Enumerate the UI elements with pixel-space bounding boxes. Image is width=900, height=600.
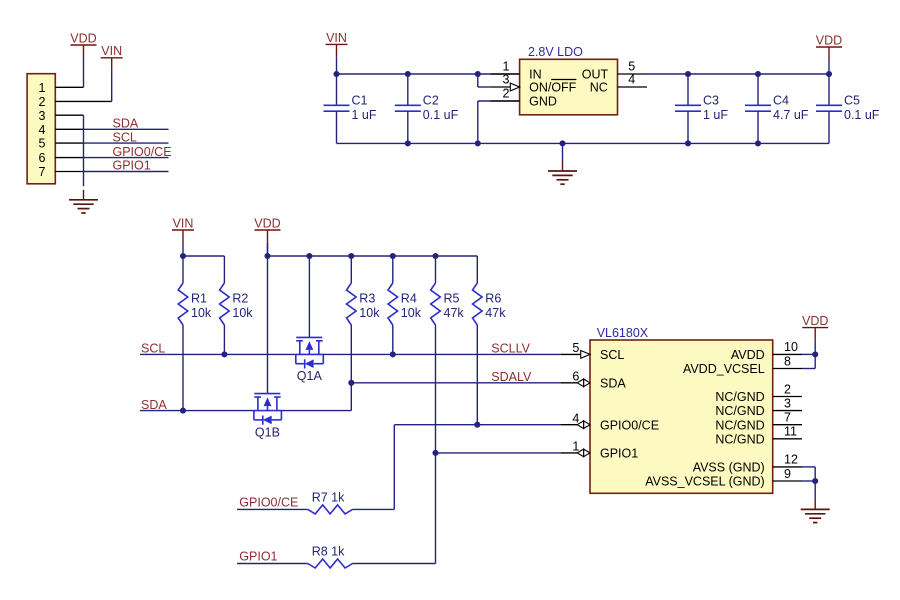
svg-text:AVSS_VCSEL (GND): AVSS_VCSEL (GND)	[645, 475, 764, 489]
wire AVSS to ground	[802, 467, 815, 481]
svg-text:C3: C3	[703, 93, 719, 107]
pin 1 stub	[491, 73, 520, 75]
node R3/SDALV	[348, 380, 354, 386]
capacitor C3	[675, 74, 728, 143]
wire GPIO1 to R8	[237, 563, 308, 565]
svg-text:2: 2	[784, 382, 791, 396]
pin 12 stub	[773, 466, 802, 468]
svg-text:GPIO1: GPIO1	[239, 550, 277, 564]
node C4 bottom	[755, 140, 761, 146]
svg-text:R1: R1	[191, 292, 207, 306]
svg-text:IN: IN	[529, 68, 542, 82]
svg-text:2: 2	[503, 86, 510, 100]
power VDD (regulator output)	[816, 33, 842, 74]
svg-text:GND: GND	[529, 95, 557, 109]
resistor R8	[308, 545, 353, 568]
svg-text:R2: R2	[232, 292, 248, 306]
wire AVDD to VDD	[802, 354, 815, 368]
svg-text:R4: R4	[401, 292, 417, 306]
power VIN (regulator input)	[326, 31, 348, 74]
svg-text:1: 1	[503, 59, 510, 73]
node R6/GPIO0-CE	[474, 422, 480, 428]
svg-text:C4: C4	[773, 93, 789, 107]
svg-text:NC: NC	[590, 81, 608, 95]
resistor R7	[308, 491, 353, 514]
power VIN (connector pin 2)	[101, 44, 123, 101]
svg-text:1 uF: 1 uF	[703, 108, 728, 122]
svg-text:GPIO0/CE: GPIO0/CE	[600, 418, 659, 432]
svg-text:SCLLV: SCLLV	[491, 342, 530, 356]
pin 5	[39, 137, 46, 151]
capacitor C5	[816, 74, 880, 143]
svg-text:VDD: VDD	[816, 33, 842, 47]
svg-text:47k: 47k	[485, 306, 506, 320]
node AVSS junction	[812, 478, 818, 484]
node VIN/R1	[180, 253, 186, 259]
svg-text:6: 6	[572, 370, 579, 384]
node C3 bottom	[685, 140, 691, 146]
svg-text:2: 2	[39, 95, 46, 109]
svg-text:5: 5	[572, 341, 579, 355]
node Q1A gate	[306, 253, 312, 259]
svg-text:AVSS (GND): AVSS (GND)	[693, 461, 765, 475]
pin 2 stub	[55, 100, 111, 102]
wire R6 top lead	[476, 256, 478, 283]
pin 2 stub	[491, 100, 520, 102]
wire R1 top lead	[182, 256, 184, 283]
ground (regulator)	[548, 143, 577, 184]
power VDD (connector pin 1)	[70, 31, 96, 87]
svg-text:GPIO0/CE: GPIO0/CE	[113, 145, 172, 159]
svg-text:4.7 uF: 4.7 uF	[773, 108, 809, 122]
wire GPIO0/CE to R7	[237, 508, 308, 510]
svg-text:Q1B: Q1B	[255, 425, 280, 439]
wire R6 bottom lead to GPIO0/CE	[476, 325, 478, 425]
svg-text:NC/GND: NC/GND	[715, 390, 764, 404]
wire R3 bottom lead to SDALV	[350, 325, 352, 383]
regulator U2 2.8V LDO	[520, 45, 618, 115]
svg-text:10k: 10k	[191, 306, 212, 320]
svg-text:GPIO1: GPIO1	[113, 159, 151, 173]
svg-text:7: 7	[39, 165, 46, 179]
pin 5 stub	[618, 73, 647, 75]
svg-text:VL6180X: VL6180X	[597, 326, 649, 340]
svg-text:ON/OFF: ON/OFF	[529, 81, 577, 95]
pin 8 stub	[773, 368, 802, 370]
capacitor C2	[395, 74, 459, 143]
wire R5 top lead	[435, 256, 437, 283]
pin 3 stub	[773, 410, 802, 412]
svg-text:NC/GND: NC/GND	[715, 432, 764, 446]
node VDD/Q1B gate	[264, 253, 270, 259]
power VDD (IC)	[802, 314, 828, 354]
wire LDO OUT rail	[647, 73, 830, 75]
svg-text:R3: R3	[359, 292, 375, 306]
svg-text:1: 1	[572, 440, 579, 454]
svg-text:NC/GND: NC/GND	[715, 418, 764, 432]
pin 1 bidir arrow	[577, 449, 590, 457]
resistor R5	[431, 283, 465, 325]
pin 7 stub	[773, 424, 802, 426]
node C2 bottom	[405, 140, 411, 146]
svg-text:R6: R6	[485, 292, 501, 306]
pin 3	[39, 109, 46, 123]
svg-text:VIN: VIN	[101, 44, 122, 58]
node R3 top	[348, 253, 354, 259]
svg-text:SDA: SDA	[113, 117, 139, 131]
wire R3 top lead	[350, 256, 352, 283]
svg-text:4: 4	[572, 412, 579, 426]
svg-text:AVDD: AVDD	[731, 348, 765, 362]
ground (IC)	[801, 481, 830, 523]
pin 4 stub (NC)	[618, 86, 648, 88]
wire R7 to GPIO0/CE pin	[353, 425, 578, 510]
wire VDD rail	[268, 255, 478, 257]
svg-text:VDD: VDD	[802, 314, 828, 328]
svg-text:C1: C1	[352, 93, 368, 107]
wire SCLLV	[323, 353, 561, 355]
svg-text:3: 3	[39, 109, 46, 123]
pin 5 stub	[55, 142, 84, 144]
svg-text:5: 5	[628, 59, 635, 73]
node earth junction	[559, 140, 565, 146]
svg-text:C5: C5	[844, 93, 860, 107]
pin 3 input arrow	[510, 83, 519, 91]
svg-text:10: 10	[784, 340, 798, 354]
node R4/SCLLV	[390, 351, 396, 357]
capacitor C4	[745, 74, 809, 143]
svg-text:GPIO0/CE: GPIO0/CE	[239, 496, 298, 510]
svg-text:8: 8	[784, 354, 791, 368]
svg-text:6: 6	[39, 151, 46, 165]
svg-text:R5: R5	[444, 292, 460, 306]
node C2 top	[405, 71, 411, 77]
pin 4	[39, 123, 46, 137]
transistor Q1A	[296, 256, 324, 383]
IC U1 VL6180X	[590, 326, 773, 493]
svg-text:R8 1k: R8 1k	[312, 545, 345, 559]
pin 6	[39, 151, 46, 165]
svg-text:SCL: SCL	[113, 130, 137, 144]
resistor R4	[388, 283, 422, 325]
wire R4 top lead	[392, 256, 394, 283]
wire VIN rail	[183, 255, 224, 257]
svg-text:VDD: VDD	[70, 31, 96, 45]
wire R4 bottom lead to SCLLV	[392, 325, 394, 354]
connector J1	[27, 74, 55, 184]
pin 11 stub	[773, 438, 802, 440]
svg-text:Q1A: Q1A	[297, 369, 323, 383]
svg-text:OUT: OUT	[582, 68, 609, 82]
svg-text:12: 12	[784, 453, 798, 467]
svg-text:VIN: VIN	[173, 216, 194, 230]
pin 6 bidir arrow	[577, 379, 590, 387]
pin 7 stub	[55, 171, 84, 173]
svg-text:0.1 uF: 0.1 uF	[844, 108, 880, 122]
wire to LDO ON/OFF pin	[478, 74, 511, 87]
pin 10 stub	[773, 353, 802, 355]
svg-text:1: 1	[39, 81, 46, 95]
node C4 top	[755, 71, 761, 77]
node C3 top	[685, 71, 691, 77]
svg-text:AVDD_VCSEL: AVDD_VCSEL	[683, 362, 765, 376]
svg-text:2.8V LDO: 2.8V LDO	[528, 45, 583, 59]
svg-text:47k: 47k	[444, 306, 465, 320]
wire Q1B drain to SDALV	[281, 383, 351, 411]
pin 1	[39, 81, 46, 95]
wire bottom rail	[337, 142, 830, 144]
power VIN (pullups)	[172, 216, 194, 256]
wire SCL (pin 5)	[84, 142, 169, 144]
node R5 top	[432, 253, 438, 259]
svg-text:11: 11	[784, 425, 797, 439]
pin 1 stub	[55, 86, 83, 88]
svg-text:SCL: SCL	[600, 348, 624, 362]
wire R5 bottom lead to GPIO1	[435, 325, 437, 453]
svg-text:4: 4	[39, 123, 46, 137]
wire R2 top lead	[223, 256, 225, 283]
node R2/SCL	[221, 351, 227, 357]
svg-text:3: 3	[784, 396, 791, 410]
node GND branch	[475, 140, 481, 146]
transistor Q1B	[254, 243, 282, 439]
resistor R3	[347, 283, 381, 325]
node R4 top	[390, 253, 396, 259]
svg-text:C2: C2	[423, 93, 439, 107]
wire SDA	[140, 410, 254, 412]
resistor R1	[178, 283, 212, 325]
pin 2	[39, 95, 46, 109]
svg-text:SDA: SDA	[141, 398, 167, 412]
node R1/SDA	[180, 408, 186, 414]
resistor R6	[473, 283, 507, 325]
svg-text:10k: 10k	[359, 306, 380, 320]
wire VIN rail to LDO IN	[337, 73, 520, 75]
svg-text:VIN: VIN	[326, 31, 347, 45]
wire R2 bottom lead to SCL	[223, 325, 225, 354]
svg-text:1 uF: 1 uF	[352, 108, 377, 122]
wire GPIO1 (pin 7)	[84, 171, 169, 173]
node VIN/C1	[333, 71, 339, 77]
wire LDO GND to bottom rail	[478, 101, 520, 143]
svg-text:GPIO1: GPIO1	[600, 447, 638, 461]
pin 5 input arrow	[581, 351, 590, 359]
svg-text:SDALV: SDALV	[491, 370, 532, 384]
svg-text:VDD: VDD	[254, 216, 280, 230]
capacitor C1	[324, 74, 377, 143]
pin 4 bidir arrow	[577, 421, 590, 429]
wire SCL	[140, 353, 296, 355]
ground (connector)	[69, 190, 98, 213]
svg-text:SCL: SCL	[141, 342, 165, 356]
resistor R2	[220, 283, 254, 325]
pin 4 stub	[55, 128, 84, 130]
svg-text:7: 7	[784, 411, 791, 425]
svg-text:10k: 10k	[232, 306, 253, 320]
node VDD/C5	[826, 71, 832, 77]
pin 9 stub	[773, 480, 802, 482]
pin 3 stub	[55, 114, 83, 116]
node AVDD/VDD	[812, 351, 818, 357]
pin 7	[39, 165, 46, 179]
svg-text:9: 9	[784, 467, 791, 481]
wire pin3 to ground	[83, 115, 85, 186]
pin 2 stub	[773, 396, 802, 398]
node R5/GPIO1	[432, 450, 438, 456]
pin 6 stub	[55, 157, 84, 159]
svg-text:R7 1k: R7 1k	[312, 491, 345, 505]
wire R8 to GPIO1 pin	[353, 453, 578, 564]
svg-text:NC/GND: NC/GND	[715, 404, 764, 418]
svg-text:0.1 uF: 0.1 uF	[423, 108, 459, 122]
svg-text:SDA: SDA	[600, 376, 626, 390]
node ON/OFF branch	[475, 71, 481, 77]
svg-text:5: 5	[39, 137, 46, 151]
power VDD (pullups)	[254, 216, 280, 256]
wire SDALV	[351, 382, 561, 384]
wire R1 bottom lead to SDA	[182, 325, 184, 411]
wire GPIO0/CE (pin 6)	[84, 157, 169, 159]
wire SDA (pin 4)	[84, 128, 169, 130]
svg-text:10k: 10k	[401, 306, 422, 320]
